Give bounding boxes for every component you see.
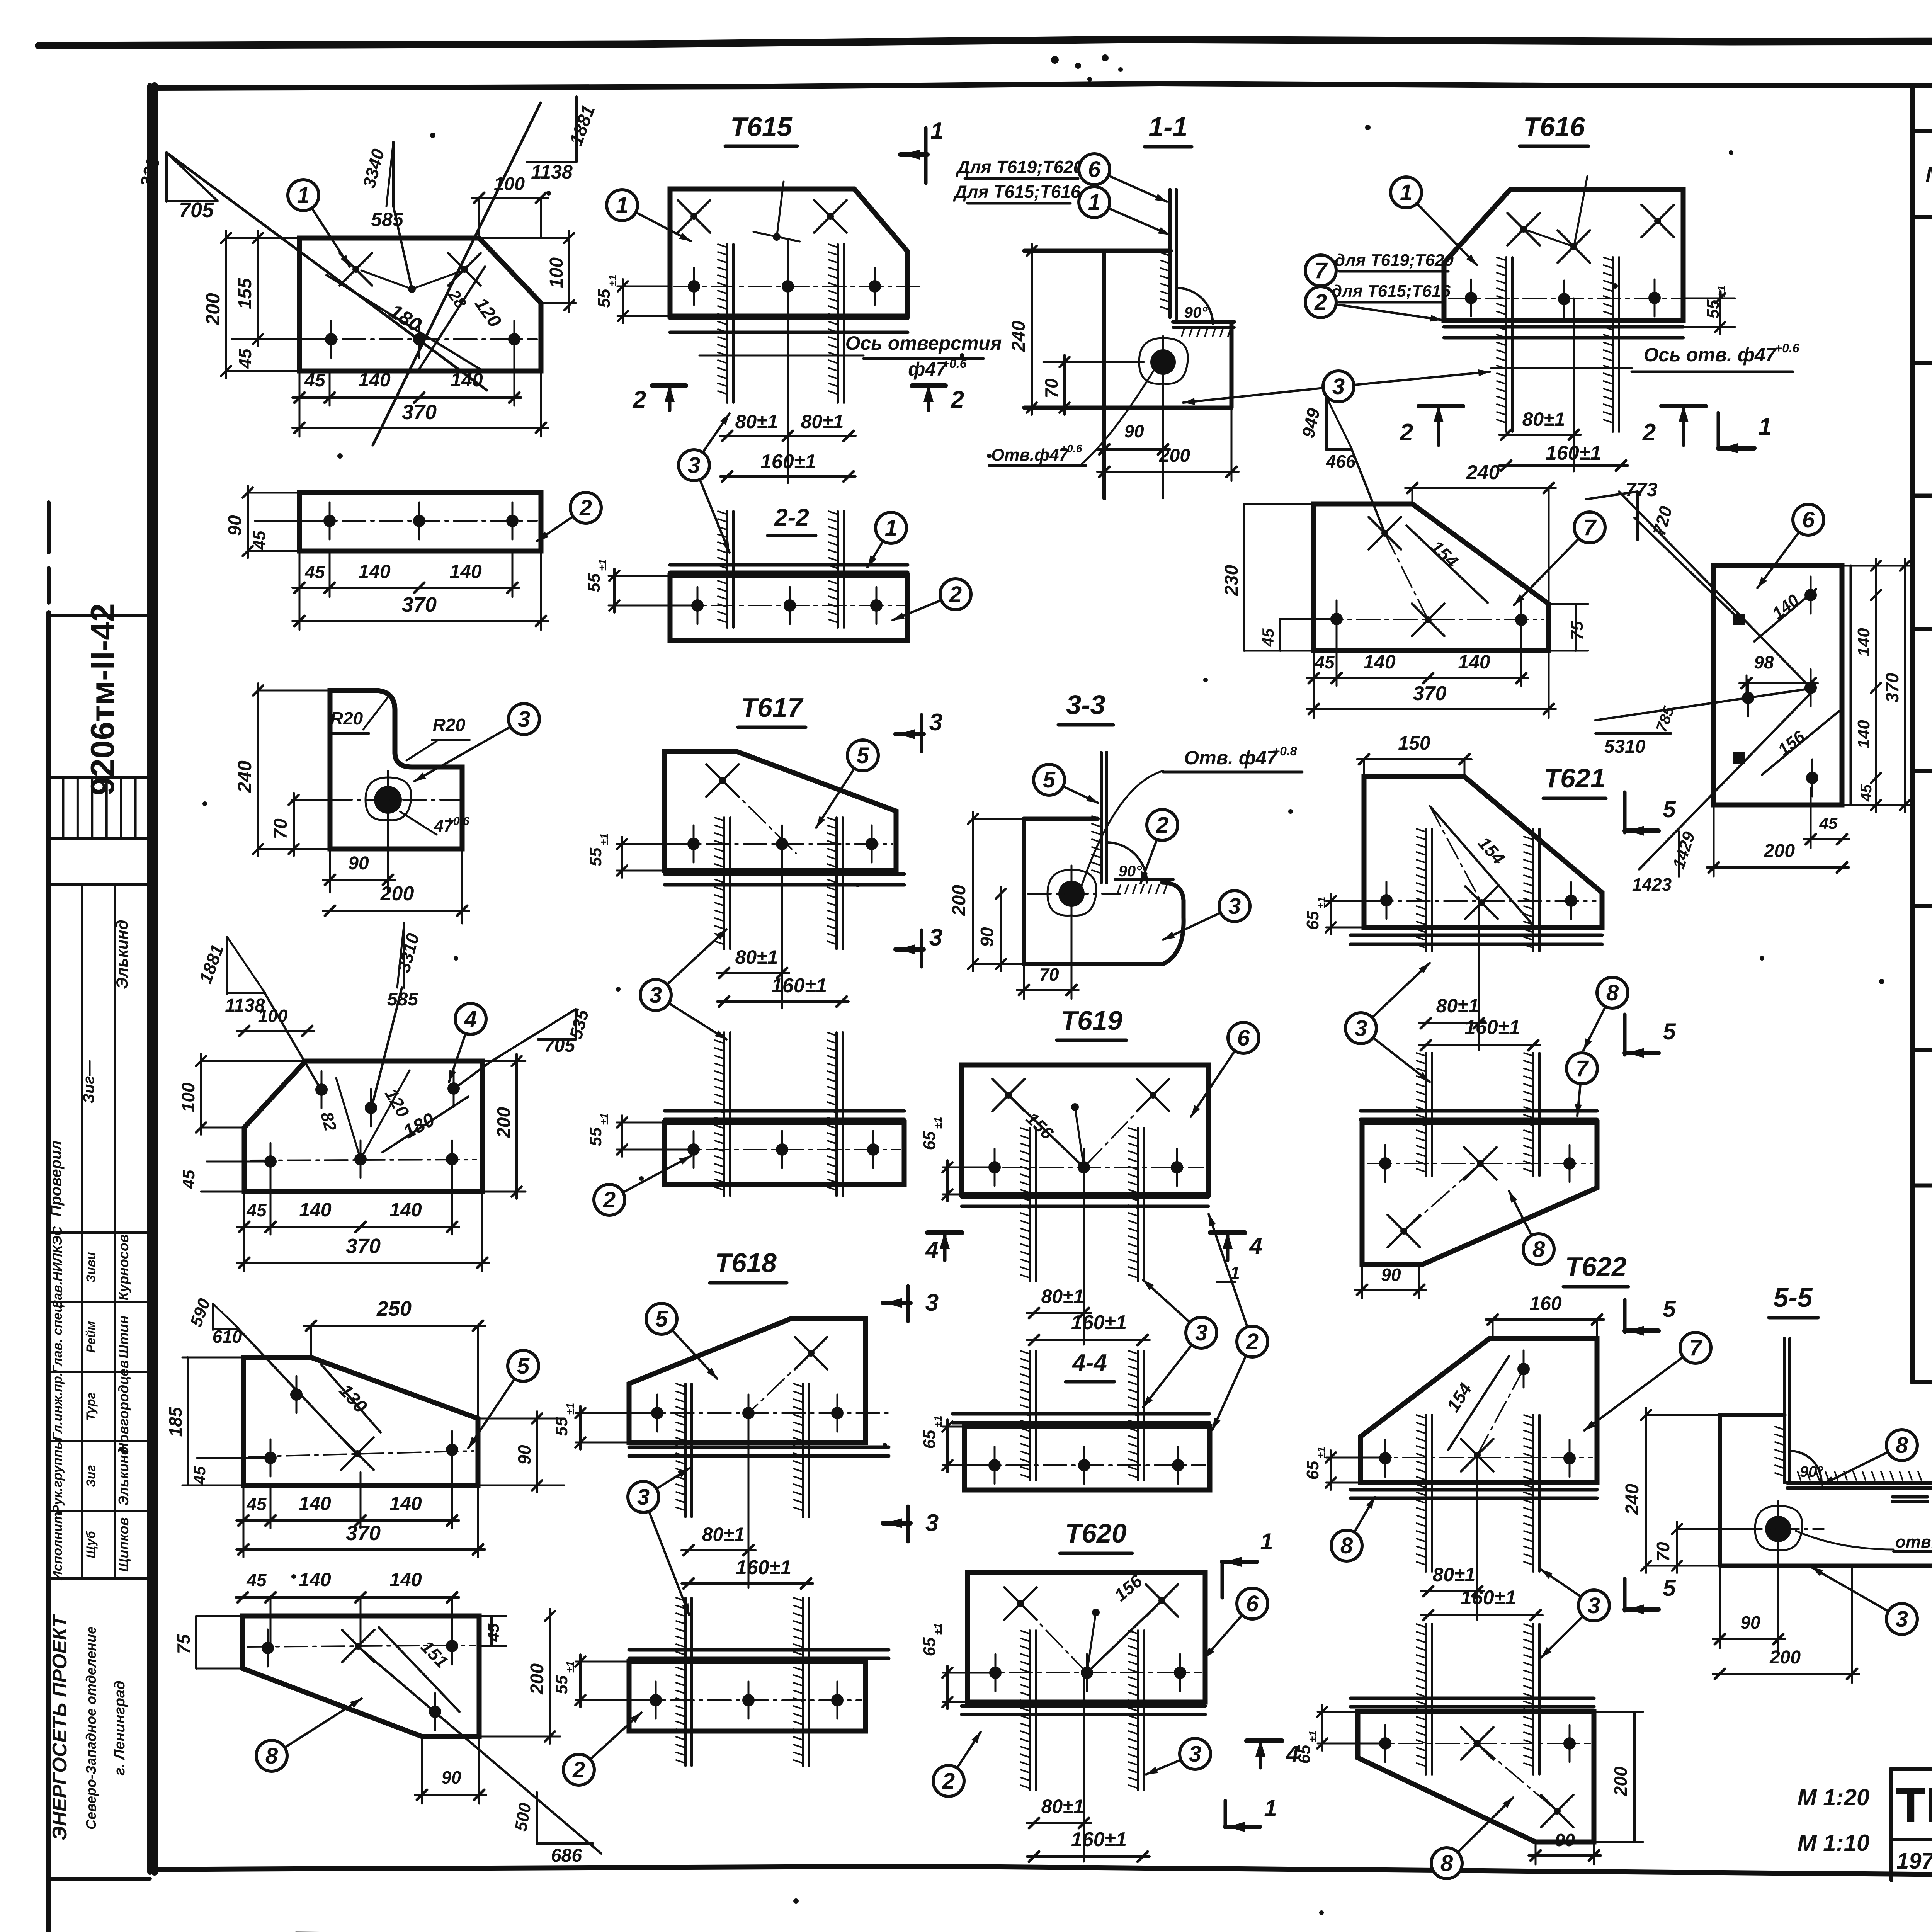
svg-text:6: 6 — [1088, 157, 1101, 182]
svg-text:Штин: Штин — [116, 1315, 131, 1358]
svg-text:200: 200 — [202, 293, 224, 326]
svg-text:140: 140 — [1854, 720, 1873, 748]
svg-text:±1: ±1 — [597, 559, 609, 571]
svg-text:3: 3 — [925, 1289, 939, 1316]
svg-text:55: 55 — [585, 573, 604, 592]
svg-text:230: 230 — [1221, 565, 1242, 596]
svg-text:±1: ±1 — [598, 1113, 610, 1125]
svg-text:160: 160 — [1529, 1293, 1562, 1314]
svg-text:200: 200 — [527, 1663, 548, 1695]
svg-text:4-4: 4-4 — [1071, 1350, 1107, 1376]
svg-text:Т616: Т616 — [1523, 112, 1585, 142]
svg-text:140: 140 — [449, 561, 482, 582]
svg-text:90: 90 — [1124, 421, 1144, 441]
svg-text:160±1: 160±1 — [1071, 1311, 1127, 1334]
svg-text:4: 4 — [464, 1007, 477, 1032]
svg-text:Т619: Т619 — [1061, 1005, 1122, 1036]
svg-text:70: 70 — [1039, 964, 1059, 985]
svg-text:+0.6: +0.6 — [446, 815, 469, 828]
svg-text:90: 90 — [977, 927, 997, 947]
svg-text:45: 45 — [1819, 814, 1838, 832]
svg-text:отв.ф47: отв.ф47 — [1895, 1532, 1932, 1551]
svg-text:160±1: 160±1 — [1071, 1828, 1127, 1851]
svg-text:Зиг: Зиг — [84, 1465, 98, 1487]
svg-text:686: 686 — [551, 1845, 582, 1866]
svg-text:140: 140 — [299, 1199, 332, 1221]
svg-text:45: 45 — [235, 348, 255, 369]
svg-text:Ось отверстия: Ось отверстия — [845, 332, 1002, 354]
svg-text:Ось отв. ф47: Ось отв. ф47 — [1643, 344, 1777, 366]
svg-text:3: 3 — [688, 453, 700, 478]
svg-text:7: 7 — [1315, 258, 1328, 283]
svg-text:3: 3 — [929, 924, 942, 951]
svg-text:45: 45 — [304, 562, 325, 582]
svg-text:140: 140 — [358, 369, 391, 391]
svg-text:2: 2 — [633, 386, 646, 413]
svg-text:5: 5 — [1663, 1296, 1676, 1322]
svg-text:5: 5 — [1663, 1575, 1676, 1601]
svg-text:90°: 90° — [1800, 1463, 1823, 1480]
svg-text:45: 45 — [246, 1200, 267, 1220]
svg-text:1: 1 — [1400, 180, 1412, 205]
svg-text:2: 2 — [579, 495, 592, 520]
svg-text:6: 6 — [1802, 507, 1815, 532]
svg-text:65: 65 — [1295, 1745, 1314, 1764]
svg-text:Щипков: Щипков — [116, 1517, 131, 1572]
svg-text:185: 185 — [165, 1406, 185, 1437]
svg-text:Для Т615;Т616: Для Т615;Т616 — [953, 182, 1081, 202]
svg-text:1: 1 — [930, 118, 944, 145]
svg-text:±1: ±1 — [932, 1416, 944, 1428]
svg-text:3: 3 — [925, 1510, 939, 1536]
svg-text:150: 150 — [1398, 732, 1430, 754]
svg-text:Тург: Тург — [84, 1392, 98, 1420]
svg-text:2: 2 — [1156, 813, 1168, 838]
svg-text:2: 2 — [942, 1769, 955, 1794]
svg-text:3: 3 — [518, 707, 530, 732]
svg-text:1138: 1138 — [531, 161, 573, 183]
svg-text:160±1: 160±1 — [760, 451, 816, 473]
svg-text:Отв. ф47: Отв. ф47 — [1184, 747, 1278, 769]
svg-text:250: 250 — [376, 1297, 412, 1320]
svg-text:370: 370 — [402, 593, 437, 616]
svg-text:Проверил: Проверил — [48, 1140, 65, 1216]
svg-text:45: 45 — [1858, 784, 1875, 802]
svg-text:90: 90 — [441, 1767, 461, 1787]
svg-text:7: 7 — [1583, 515, 1597, 540]
svg-text:2: 2 — [1642, 419, 1656, 446]
svg-text:Исполнит.: Исполнит. — [50, 1509, 65, 1581]
svg-text:Щуб: Щуб — [84, 1531, 98, 1558]
svg-text:370: 370 — [346, 1235, 381, 1258]
svg-text:2: 2 — [951, 386, 964, 413]
svg-text:45: 45 — [304, 370, 326, 391]
svg-text:200: 200 — [494, 1107, 514, 1138]
svg-text:90: 90 — [1381, 1265, 1401, 1285]
svg-text:45: 45 — [1314, 652, 1335, 672]
svg-text:610: 610 — [213, 1327, 242, 1347]
svg-text:585: 585 — [387, 989, 418, 1010]
svg-text:90: 90 — [1740, 1612, 1760, 1633]
svg-text:45: 45 — [250, 531, 269, 550]
svg-text:160±1: 160±1 — [1461, 1587, 1516, 1609]
svg-text:55: 55 — [552, 1675, 571, 1694]
svg-text:80±1: 80±1 — [702, 1524, 745, 1545]
svg-text:3: 3 — [1189, 1742, 1201, 1767]
svg-text:1: 1 — [1759, 413, 1772, 440]
svg-text:7: 7 — [1689, 1335, 1703, 1361]
svg-text:55: 55 — [586, 1127, 605, 1146]
svg-text:200: 200 — [1769, 1647, 1801, 1668]
svg-text:2: 2 — [949, 582, 962, 607]
svg-text:2-2: 2-2 — [774, 504, 809, 531]
svg-text:240: 240 — [234, 760, 255, 793]
svg-text:200: 200 — [1159, 446, 1190, 466]
svg-text:140: 140 — [1854, 628, 1873, 656]
svg-text:8: 8 — [1440, 1851, 1453, 1876]
svg-text:9206тм-II-42: 9206тм-II-42 — [84, 603, 121, 796]
svg-text:для Т615;Т616: для Т615;Т616 — [1332, 282, 1451, 301]
svg-text:Т615: Т615 — [730, 112, 793, 142]
svg-text:5310: 5310 — [1604, 736, 1646, 757]
svg-text:140: 140 — [358, 561, 391, 582]
svg-text:90°: 90° — [1119, 863, 1142, 880]
svg-text:90: 90 — [1555, 1830, 1575, 1850]
svg-text:1: 1 — [885, 515, 897, 541]
svg-text:65: 65 — [920, 1430, 939, 1449]
svg-text:70: 70 — [1041, 378, 1061, 398]
svg-text:65: 65 — [1303, 911, 1322, 930]
svg-text:2: 2 — [572, 1757, 585, 1782]
svg-text:240: 240 — [1466, 461, 1500, 484]
svg-text:65: 65 — [920, 1131, 939, 1150]
svg-text:200: 200 — [1764, 841, 1795, 861]
svg-text:370: 370 — [346, 1522, 381, 1545]
svg-text:80±1: 80±1 — [1522, 408, 1565, 430]
svg-text:160±1: 160±1 — [736, 1556, 791, 1579]
svg-text:±1: ±1 — [1315, 1447, 1327, 1459]
svg-text:5: 5 — [1663, 796, 1676, 822]
svg-text:Зиви: Зиви — [84, 1252, 98, 1283]
svg-text:для Т619;Т620: для Т619;Т620 — [1335, 251, 1454, 270]
svg-text:65: 65 — [920, 1637, 939, 1656]
svg-text:±1: ±1 — [564, 1403, 576, 1415]
svg-text:7: 7 — [1576, 1056, 1589, 1081]
svg-text:90: 90 — [514, 1445, 534, 1465]
svg-text:100: 100 — [494, 174, 525, 194]
svg-text:8: 8 — [1896, 1433, 1908, 1458]
svg-text:773: 773 — [1625, 479, 1658, 500]
svg-text:Элькинд: Элькинд — [116, 1446, 131, 1506]
svg-text:98: 98 — [1754, 652, 1774, 672]
svg-text:140: 140 — [299, 1493, 331, 1514]
svg-text:г. Ленинград: г. Ленинград — [112, 1680, 128, 1775]
svg-text:1: 1 — [616, 193, 628, 218]
svg-text:Рейм: Рейм — [84, 1321, 98, 1353]
svg-text:140: 140 — [389, 1493, 422, 1514]
svg-text:3: 3 — [1355, 1016, 1367, 1041]
svg-text:55: 55 — [595, 289, 614, 308]
svg-text:Глав. спец.: Глав. спец. — [50, 1300, 65, 1373]
svg-text:75: 75 — [1568, 621, 1587, 640]
svg-text:Северо-Западное отделение: Северо-Западное отделение — [83, 1626, 99, 1830]
svg-text:1: 1 — [297, 183, 310, 208]
svg-text:3: 3 — [650, 983, 662, 1008]
svg-text:3: 3 — [1228, 894, 1241, 919]
svg-text:200: 200 — [949, 885, 969, 916]
svg-text:М 1:20: М 1:20 — [1798, 1784, 1870, 1810]
svg-text:140: 140 — [389, 1569, 422, 1590]
svg-text:200: 200 — [1611, 1766, 1631, 1796]
svg-text:Т621: Т621 — [1544, 763, 1605, 793]
svg-text:585: 585 — [371, 209, 404, 230]
svg-text:ф47: ф47 — [908, 358, 947, 380]
svg-text:±1: ±1 — [598, 833, 610, 845]
svg-text:160±1: 160±1 — [771, 975, 827, 997]
svg-text:Зав.НИЛКЭС: Зав.НИЛКЭС — [50, 1226, 65, 1308]
svg-text:±1: ±1 — [607, 275, 619, 287]
svg-text:140: 140 — [1363, 651, 1396, 673]
svg-text:ТК: ТК — [1896, 1778, 1932, 1833]
svg-text:4: 4 — [1249, 1233, 1262, 1259]
svg-text:200: 200 — [380, 883, 414, 905]
svg-text:705: 705 — [179, 199, 214, 222]
svg-text:140: 140 — [1458, 651, 1490, 673]
svg-text:70: 70 — [270, 818, 291, 839]
svg-text:90°: 90° — [1184, 304, 1208, 321]
svg-text:3: 3 — [929, 709, 942, 736]
svg-text:2: 2 — [1246, 1329, 1259, 1354]
svg-text:М 1:10: М 1:10 — [1798, 1830, 1870, 1856]
svg-text:3: 3 — [1896, 1607, 1908, 1632]
svg-text:8: 8 — [1340, 1533, 1353, 1558]
svg-text:4: 4 — [925, 1237, 938, 1263]
svg-text:240: 240 — [1622, 1484, 1643, 1515]
svg-text:Т617: Т617 — [741, 692, 804, 723]
svg-text:+0.6: +0.6 — [942, 357, 966, 371]
svg-text:240: 240 — [1009, 321, 1029, 352]
svg-text:2: 2 — [603, 1187, 616, 1213]
svg-text:45: 45 — [484, 1623, 502, 1642]
svg-text:140: 140 — [299, 1569, 331, 1590]
svg-text:55: 55 — [552, 1417, 571, 1436]
svg-text:2: 2 — [1400, 419, 1413, 446]
svg-text:370: 370 — [1882, 673, 1902, 702]
svg-text:R20: R20 — [433, 715, 466, 735]
svg-text:Марка: Марка — [1926, 162, 1932, 186]
svg-text:5: 5 — [517, 1354, 530, 1379]
svg-text:2: 2 — [1314, 290, 1327, 315]
svg-text:+0.6: +0.6 — [1775, 341, 1799, 355]
svg-text:6: 6 — [1237, 1026, 1250, 1051]
svg-text:370: 370 — [1413, 682, 1447, 705]
svg-text:±1: ±1 — [932, 1117, 944, 1129]
svg-text:5: 5 — [1663, 1019, 1676, 1044]
svg-text:1423: 1423 — [1632, 874, 1672, 895]
svg-text:Зиг—: Зиг— — [80, 1060, 97, 1103]
svg-text:3: 3 — [1332, 374, 1345, 399]
svg-text:55: 55 — [586, 847, 605, 866]
svg-text:Для Т619;Т620: Для Т619;Т620 — [956, 157, 1083, 177]
svg-text:8: 8 — [1532, 1237, 1545, 1262]
svg-text:Т618: Т618 — [715, 1248, 777, 1278]
svg-text:R20: R20 — [330, 708, 363, 728]
svg-text:Элькинд: Элькинд — [113, 920, 131, 989]
svg-text:100: 100 — [178, 1082, 198, 1112]
svg-text:80±1: 80±1 — [1433, 1564, 1476, 1585]
svg-text:65: 65 — [1303, 1461, 1322, 1480]
svg-text:Рук.группы: Рук.группы — [50, 1438, 65, 1514]
svg-text:370: 370 — [402, 401, 437, 424]
svg-text:80±1: 80±1 — [1041, 1796, 1084, 1817]
svg-text:Т620: Т620 — [1065, 1518, 1127, 1548]
svg-text:1: 1 — [1260, 1529, 1273, 1554]
svg-text:45: 45 — [179, 1170, 198, 1189]
svg-text:Гл.инж.пр.: Гл.инж.пр. — [50, 1372, 65, 1441]
svg-text:5: 5 — [857, 743, 869, 768]
svg-text:8: 8 — [1606, 980, 1619, 1005]
svg-text:Новгородцев: Новгородцев — [116, 1360, 131, 1453]
svg-text:6: 6 — [1246, 1591, 1259, 1616]
svg-text:±1: ±1 — [932, 1623, 944, 1635]
svg-text:80±1: 80±1 — [801, 411, 844, 432]
svg-text:1: 1 — [1088, 190, 1100, 215]
svg-text:3: 3 — [637, 1485, 650, 1510]
svg-text:80±1: 80±1 — [1436, 995, 1479, 1017]
svg-text:140: 140 — [451, 369, 483, 391]
svg-text:100: 100 — [258, 1006, 288, 1026]
svg-text:Т622: Т622 — [1565, 1252, 1627, 1282]
svg-text:1975г: 1975г — [1896, 1849, 1932, 1874]
svg-text:5: 5 — [655, 1306, 668, 1332]
svg-text:70: 70 — [1653, 1542, 1673, 1562]
svg-text:45: 45 — [1259, 628, 1277, 647]
svg-text:140: 140 — [389, 1199, 422, 1221]
svg-text:80±1: 80±1 — [735, 946, 778, 968]
svg-text:155: 155 — [235, 278, 255, 309]
svg-text:75: 75 — [173, 1634, 194, 1654]
svg-text:466: 466 — [1326, 451, 1356, 471]
svg-text:1: 1 — [1264, 1795, 1277, 1821]
svg-text:160±1: 160±1 — [1464, 1016, 1520, 1039]
svg-text:705: 705 — [544, 1036, 575, 1056]
svg-text:5-5: 5-5 — [1773, 1282, 1813, 1313]
svg-text:Отв.ф47: Отв.ф47 — [991, 446, 1070, 464]
svg-text:3-3: 3-3 — [1066, 690, 1105, 720]
svg-text:3: 3 — [1588, 1593, 1600, 1618]
svg-text:45: 45 — [190, 1466, 209, 1485]
svg-text:1-1: 1-1 — [1148, 112, 1187, 142]
svg-text:90: 90 — [348, 853, 369, 874]
svg-text:+0.8: +0.8 — [1272, 744, 1297, 758]
svg-text:Курносов: Курносов — [116, 1234, 131, 1300]
svg-text:45: 45 — [246, 1494, 267, 1514]
svg-text:80±1: 80±1 — [735, 411, 778, 432]
svg-text:80±1: 80±1 — [1041, 1286, 1084, 1307]
svg-text:ЭНЕРГОСЕТЬ ПРОЕКТ: ЭНЕРГОСЕТЬ ПРОЕКТ — [49, 1614, 71, 1840]
svg-text:3: 3 — [1195, 1320, 1207, 1345]
svg-text:±1: ±1 — [1307, 1731, 1319, 1743]
svg-text:90: 90 — [225, 515, 245, 536]
svg-text:+0.6: +0.6 — [1061, 442, 1082, 454]
svg-text:100: 100 — [546, 257, 567, 288]
svg-text:45: 45 — [246, 1570, 267, 1590]
svg-text:8: 8 — [265, 1743, 278, 1769]
svg-text:5: 5 — [1043, 767, 1056, 793]
